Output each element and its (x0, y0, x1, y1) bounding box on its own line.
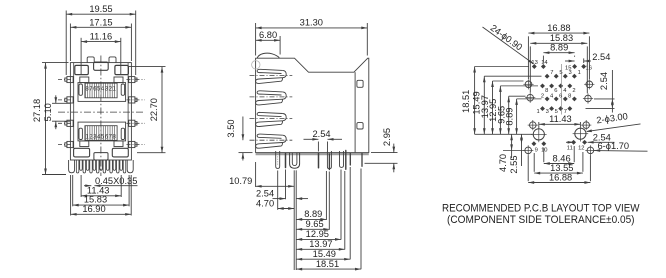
side view rear block hole lower (357, 123, 363, 129)
side view pin 2 (318, 154, 320, 168)
side view pin 3 (349, 154, 351, 166)
front view dim 11.43 (81, 195, 121, 197)
port shoulder left (80, 141, 89, 147)
pcb chain dim 8.89 (516, 99, 518, 134)
pcb chain dim 9.65 (508, 96, 510, 134)
side view chain dim 12.95 (296, 238, 341, 240)
pcb hole rowB1 pin 2 (545, 96, 550, 101)
side view contact centreline (250, 74, 293, 76)
svg-text:(COMPONENT SIDE TOLERANCE±0.05: (COMPONENT SIDE TOLERANCE±0.05) (447, 214, 635, 226)
svg-text:4.70: 4.70 (256, 198, 274, 208)
svg-text:31.30: 31.30 (300, 18, 323, 28)
pcb hole rowB1 pin 8 (572, 96, 577, 101)
front view dim 15.83 (73, 204, 129, 206)
pcb hole 11 (571, 140, 576, 145)
side view pin extension lines (277, 171, 279, 210)
side view dim 2.54 bottom (273, 198, 286, 200)
svg-text:12345678: 12345678 (85, 133, 116, 140)
svg-text:9.65: 9.65 (306, 219, 324, 229)
pcb hole rowB1 pin 6 (563, 96, 568, 101)
svg-text:6-ϕ1.70: 6-ϕ1.70 (598, 141, 630, 151)
pcb chain dim 18.51 (474, 67, 476, 135)
svg-text:16.88: 16.88 (547, 23, 570, 33)
port shoulder right (114, 141, 123, 147)
side view contact fork (257, 69, 283, 73)
pcb hole rowB2 pin 5 (558, 106, 563, 111)
svg-text:2.54: 2.54 (592, 52, 610, 62)
side view chain dim 9.65 (296, 228, 329, 230)
pcb hole rowB2 pin 3 (549, 106, 554, 111)
side view dim 10.79 (256, 185, 295, 187)
front view side tab pair 3 (67, 120, 73, 126)
pcb hole 15 (572, 64, 577, 69)
svg-text:4.70: 4.70 (498, 154, 508, 172)
pcb dim 11.43 extension lines (538, 122, 540, 128)
svg-text:14: 14 (541, 60, 548, 66)
pcb hole rowA1 pin 5 (554, 74, 559, 79)
front view dim 17.15 (70, 26, 131, 28)
pcb dim 2.55 (521, 134, 523, 166)
side view body outline (256, 58, 369, 152)
svg-text:12.95: 12.95 (306, 229, 329, 239)
port contact comb (85, 126, 114, 141)
side view contact centreline (250, 139, 293, 141)
side view bottom edge thick line (256, 153, 369, 155)
svg-text:12: 12 (578, 145, 584, 151)
pcb dim 16.88 extension lines (527, 36, 529, 79)
side view pin cluster 2 (340, 151, 344, 167)
svg-text:2: 2 (572, 88, 575, 94)
side view contact centreline (250, 96, 293, 98)
svg-text:8.89: 8.89 (504, 108, 514, 126)
front view dim 0.45X0.35 arrows (84, 185, 91, 187)
svg-text:2.54: 2.54 (599, 72, 609, 90)
front view bottom centre block (94, 153, 108, 160)
pcb shield hole mid-right (585, 95, 592, 102)
pcb chain dim 15.49 (483, 76, 485, 134)
svg-text:3: 3 (569, 70, 572, 76)
port outline box (78, 83, 126, 102)
svg-text:27.18: 27.18 (32, 99, 42, 122)
front view pin legs (76, 160, 125, 173)
side view dim 2.54 top (304, 138, 319, 140)
svg-text:2.54: 2.54 (256, 188, 274, 198)
pcb hole 14 (541, 64, 546, 69)
side view contact fork (257, 91, 283, 95)
svg-text:RECOMMENDED P.C.B LAYOUT TOP V: RECOMMENDED P.C.B LAYOUT TOP VIEW (442, 203, 640, 215)
front view top mounting tab left (87, 57, 94, 63)
front view shield leg right (127, 160, 133, 173)
svg-text:6.80: 6.80 (259, 30, 277, 40)
pcb hole rowA2 pin 2 (567, 83, 572, 88)
front view dim 22.70 (161, 67, 163, 153)
side view latch curve (257, 53, 279, 58)
front view dim 22.70 extension lines (129, 66, 166, 68)
front view dim 17.15 extension lines (69, 24, 71, 62)
front view bottom post left (74, 148, 90, 157)
front view LED window right (115, 65, 128, 74)
front view top mounting tab right (109, 57, 116, 63)
side view dim 4.70 (278, 208, 295, 210)
svg-text:18.51: 18.51 (461, 90, 471, 113)
svg-text:8: 8 (545, 88, 548, 94)
svg-text:8.46: 8.46 (553, 153, 571, 163)
pcb hole rowA2 pin 4 (558, 83, 563, 88)
svg-text:2.95: 2.95 (382, 128, 392, 146)
front view dim 16.90 (71, 213, 132, 215)
side view dim 31.30 extension lines (255, 23, 257, 56)
pcb leader 6-dia-1.70 (594, 150, 647, 153)
svg-text:16.88: 16.88 (549, 172, 572, 182)
svg-text:11: 11 (567, 145, 573, 151)
svg-text:1: 1 (578, 70, 581, 76)
front view side tab pair 4 (67, 141, 73, 147)
side view chain dim 18.51 (296, 268, 361, 270)
front view dim 11.16 (81, 41, 121, 43)
svg-text:17.15: 17.15 (89, 17, 112, 27)
pcb dim 2.54 right vertical leaders (594, 98, 615, 100)
pcb dim 2.54 right vertical (611, 70, 613, 113)
svg-text:11.16: 11.16 (90, 32, 113, 42)
pcb hole rowA1 pin 1 (572, 74, 577, 79)
port contact comb (85, 83, 114, 98)
pcb hole rowA1 pin 3 (563, 74, 568, 79)
side view dim 6.80 (256, 39, 281, 41)
pcb dim 16.88 bottom extension lines (527, 156, 529, 182)
side view chain dim 15.49 (296, 258, 350, 260)
svg-text:8.89: 8.89 (304, 209, 322, 219)
pcb hole rowA2 pin 6 (549, 83, 554, 88)
front view dim 5.10 (55, 95, 57, 103)
pcb hole 10 (541, 141, 546, 146)
side view latch pivot circle (252, 61, 260, 69)
pcb hole 13 (532, 64, 537, 69)
side view contact centreline (250, 118, 293, 120)
pcb hole 16 (581, 64, 586, 69)
side view dim 2.95 extension lines (371, 152, 398, 154)
side view pin cluster 1 (327, 151, 331, 169)
front view bottom post right (112, 148, 128, 157)
pcb dim 16.88 bottom (528, 182, 590, 184)
pcb dim 2.54 mid (566, 141, 574, 143)
pcb hole rowB1 pin 4 (554, 96, 559, 101)
pcb shield hole bottom-right (587, 147, 594, 154)
side view dim 2.54 top extension lines (317, 142, 319, 152)
pcb chain dim 13.97 (492, 81, 494, 134)
pcb pattern centreline (560, 64, 562, 115)
pcb dim 15.83 extension lines (529, 46, 531, 92)
svg-text:16: 16 (586, 65, 592, 71)
side view dim 2.95 (393, 144, 395, 153)
front view dim 11.16 extension lines (80, 38, 82, 75)
svg-text:2: 2 (541, 93, 544, 99)
port opening inner outline (85, 126, 117, 141)
pcb dim 16.88 top (528, 32, 589, 34)
svg-text:1: 1 (536, 109, 539, 115)
pcb hole 9 (531, 141, 536, 146)
pcb dim 2.54 top (565, 60, 575, 62)
side view dim 31.30 (256, 27, 368, 29)
svg-text:8.89: 8.89 (550, 43, 568, 53)
side view shield leg (276, 151, 280, 168)
svg-text:18.51: 18.51 (316, 259, 339, 269)
svg-text:2.54: 2.54 (312, 129, 330, 139)
svg-text:16.90: 16.90 (82, 204, 105, 214)
pcb leader 24-dia-0.90 (483, 27, 534, 64)
pcb dim 8.46 extension lines (543, 148, 545, 163)
pcb hole rowA2 pin 8 (540, 83, 545, 88)
pcb post hole left (533, 129, 544, 140)
pcb dim 15.83 (530, 42, 587, 44)
port outline box (78, 122, 126, 141)
front view shell inner fold lines (73, 63, 75, 149)
svg-text:9: 9 (535, 148, 538, 154)
pcb post hole right (575, 128, 586, 139)
svg-text:15.49: 15.49 (313, 249, 336, 259)
side view rear block hole upper (357, 80, 363, 87)
svg-text:10: 10 (541, 148, 547, 154)
pcb chain bottom leader (475, 133, 533, 135)
svg-text:11.43: 11.43 (549, 114, 572, 124)
pcb dim 13.55 (534, 172, 583, 174)
pcb chain dim 12.95 (499, 86, 501, 134)
port side latch left (79, 128, 82, 139)
pcb dim 8.89 extension lines (542, 56, 544, 63)
side view dim 3.50 (242, 117, 244, 141)
pcb hole 12 (582, 140, 587, 145)
front view shield leg left (69, 160, 75, 173)
svg-text:6: 6 (559, 93, 562, 99)
pcb shield hole top-right (586, 81, 593, 88)
front view LED window left (75, 65, 89, 74)
side view pin 4 (361, 154, 363, 167)
front view dim 19.55 (66, 13, 136, 15)
pcb dim 8.89 top (543, 52, 574, 54)
port side latch right (121, 84, 124, 95)
port opening inner outline (85, 83, 117, 98)
pcb shield hole low-left (530, 122, 537, 129)
side view dim 6.80 extension line (279, 36, 281, 55)
port shoulder left (80, 77, 89, 83)
side view contact fork (257, 134, 283, 138)
side view chain dim 13.97 (296, 248, 345, 250)
pcb hole rowB2 pin 1 (540, 106, 545, 111)
side view chain dim 8.89 (296, 218, 326, 220)
pcb dim 8.46 (544, 163, 574, 165)
front view horizontal centreline (58, 111, 145, 113)
pcb leader 2-dia-3.00 (587, 124, 641, 131)
pcb shield hole top-left (525, 81, 532, 88)
svg-text:5.10: 5.10 (43, 103, 53, 121)
side view rear block inner edge (354, 72, 356, 152)
front view dim 19.55 extension lines (65, 11, 67, 76)
pcb shield hole bottom-left (525, 147, 532, 154)
svg-text:7: 7 (550, 70, 553, 76)
svg-text:10.79: 10.79 (229, 176, 252, 186)
svg-text:3.50: 3.50 (226, 119, 236, 137)
front view centre tab (94, 62, 109, 70)
side view contact fork (257, 112, 283, 116)
port side latch right (121, 128, 124, 139)
front view body shell outline (70, 63, 131, 160)
svg-text:13.97: 13.97 (309, 239, 332, 249)
front view side tab pair 2 (67, 97, 73, 103)
svg-text:22.70: 22.70 (149, 98, 159, 121)
pcb hole rowA1 pin 7 (545, 74, 550, 79)
svg-text:2.55: 2.55 (509, 155, 519, 173)
pcb shield hole low-right (583, 122, 590, 129)
front view dim 5.10 extension lines (52, 102, 70, 104)
front view vertical centreline (100, 56, 102, 177)
front view dim 27.18 extension lines (42, 62, 69, 64)
svg-text:87654321: 87654321 (85, 85, 116, 92)
side view pin 1 (285, 154, 287, 168)
port side latch left (79, 84, 82, 95)
front view dim 27.18 (45, 63, 47, 175)
pcb dim 13.55 extension lines (533, 153, 535, 172)
pcb bottom leader 4.70 (503, 149, 525, 151)
front view side tab pair 1 (67, 77, 73, 83)
svg-text:6: 6 (554, 88, 557, 94)
side view front post (290, 153, 300, 168)
pcb shield hole mid-left (527, 94, 534, 101)
port shoulder right (114, 77, 123, 83)
front view bottom dim extension lines (80, 175, 82, 197)
side view dim 3.50 extension line (239, 152, 253, 154)
pcb dim 2.54 top extension line (583, 58, 585, 63)
pcb dim 4.70 (511, 134, 513, 158)
svg-text:19.55: 19.55 (89, 4, 112, 14)
svg-text:8: 8 (568, 93, 571, 99)
pcb hole rowB2 pin 7 (567, 106, 572, 111)
pcb dim 11.43 (539, 123, 581, 125)
